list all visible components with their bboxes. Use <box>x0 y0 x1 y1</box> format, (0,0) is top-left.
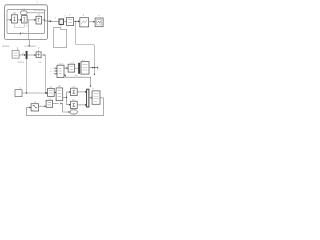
wire drop x28.7 <box>28 20 30 40</box>
wire below box with arrow <box>28 40 30 47</box>
wire D6 to D6b <box>54 92 56 94</box>
block D6 <box>48 88 55 96</box>
block A3 <box>36 16 42 24</box>
goto tag u2 (oblong) <box>21 11 28 15</box>
wire T2 to T3 <box>74 20 80 22</box>
wire B4 to mux1 <box>19 54 26 56</box>
svg-text:7: 7 <box>36 1 38 5</box>
block A1 (integrator) <box>12 15 18 23</box>
block B1 (bottom-left of loop) <box>31 104 38 111</box>
svg-text:4: 4 <box>98 15 100 17</box>
wire C5 out to right <box>22 92 48 94</box>
svg-text:e.f: e.f <box>82 60 85 62</box>
wire A3 exit right <box>42 20 52 21</box>
block T4 <box>95 18 103 27</box>
wire M2 to demux <box>75 67 79 69</box>
svg-text:7: 7 <box>69 15 71 17</box>
wire T1 to T2 <box>64 20 67 22</box>
block BM <box>46 100 53 107</box>
wire A1 bottom loop <box>15 23 25 27</box>
wire branch vertical <box>66 92 68 105</box>
svg-text:c: c <box>50 74 51 76</box>
demux D1 <box>78 63 80 74</box>
svg-text:1: 1 <box>17 46 19 50</box>
wire A1 to A2 <box>18 19 22 21</box>
wire R2 out <box>77 104 86 106</box>
block T3 <box>80 18 89 27</box>
node J6 <box>94 67 95 68</box>
wire A2 to A3 <box>27 19 36 21</box>
subsystem container U_outer (Temporar) <box>5 5 48 40</box>
mux M1 <box>26 51 28 59</box>
wire branch from J5 down and right <box>76 21 95 75</box>
wire feedback-left into A1 <box>7 19 12 21</box>
stub terminator right <box>94 66 97 69</box>
node J1 <box>44 19 45 20</box>
block R1 <box>71 88 78 95</box>
block R2 <box>71 101 78 108</box>
wire M1 down-out across <box>64 75 91 86</box>
svg-text:7: 7 <box>19 25 21 27</box>
wire to R1 <box>67 91 71 93</box>
wire T1 bottom stub <box>60 25 62 28</box>
wire B5 out down <box>41 55 46 93</box>
node J2 <box>26 92 27 93</box>
block M3 <box>81 62 89 75</box>
port stubs M1 <box>54 68 57 74</box>
node J5 <box>75 21 76 22</box>
wire BIG out down to bottom feedback <box>27 98 104 116</box>
subsystem container U_inner <box>7 10 45 34</box>
wire to R2 <box>67 104 71 106</box>
wire B1 to BM <box>39 105 47 107</box>
wire BM out to oblong <box>53 102 59 104</box>
svg-text:Temporar: Temporar <box>33 8 46 12</box>
block B4 (In block) <box>12 51 19 59</box>
svg-text:5: 5 <box>55 17 57 19</box>
block A2 <box>22 16 28 23</box>
block D6b tall <box>56 88 63 101</box>
svg-text:Intrare: Intrare <box>2 44 10 48</box>
svg-text:a: a <box>50 68 52 70</box>
goto tag oblong bottom <box>70 110 77 114</box>
block T1 small dark <box>59 19 64 24</box>
node tick on inner bottom <box>20 32 22 34</box>
node J3 <box>45 92 46 93</box>
wire M3 out to J6 <box>89 67 94 69</box>
wire mux1 down long <box>26 59 28 93</box>
wire into container from T1 <box>48 20 59 22</box>
box scope window (stepped rect) <box>54 28 67 48</box>
svg-text:4: 4 <box>92 89 94 91</box>
svg-text:b: b <box>50 71 52 73</box>
wire T3 to T4 <box>89 21 95 23</box>
node J4 <box>66 97 67 98</box>
block C5 <box>15 90 22 97</box>
block BIG <box>92 91 100 104</box>
svg-text:mod a: mod a <box>17 61 24 64</box>
wire mux1 out right <box>28 54 37 56</box>
block M2 <box>68 64 75 72</box>
svg-text:#: # <box>38 48 40 50</box>
svg-text:u b: u b <box>38 61 42 64</box>
wire R1 out <box>77 91 86 93</box>
wire B5 top stub <box>38 50 40 52</box>
wire mux2 out <box>89 97 92 99</box>
block T2 <box>67 18 74 26</box>
mux M2 <box>87 89 89 107</box>
svg-text:2: 2 <box>26 25 28 27</box>
wire goto tag across <box>27 13 44 20</box>
svg-text:Comutator: Comutator <box>24 44 36 48</box>
block M1 tall <box>57 65 64 77</box>
wire D6b out to branch <box>63 96 67 98</box>
svg-text:3: 3 <box>83 15 85 17</box>
block B5 (switch) <box>36 52 41 58</box>
wire M1 to M2 <box>64 67 68 69</box>
